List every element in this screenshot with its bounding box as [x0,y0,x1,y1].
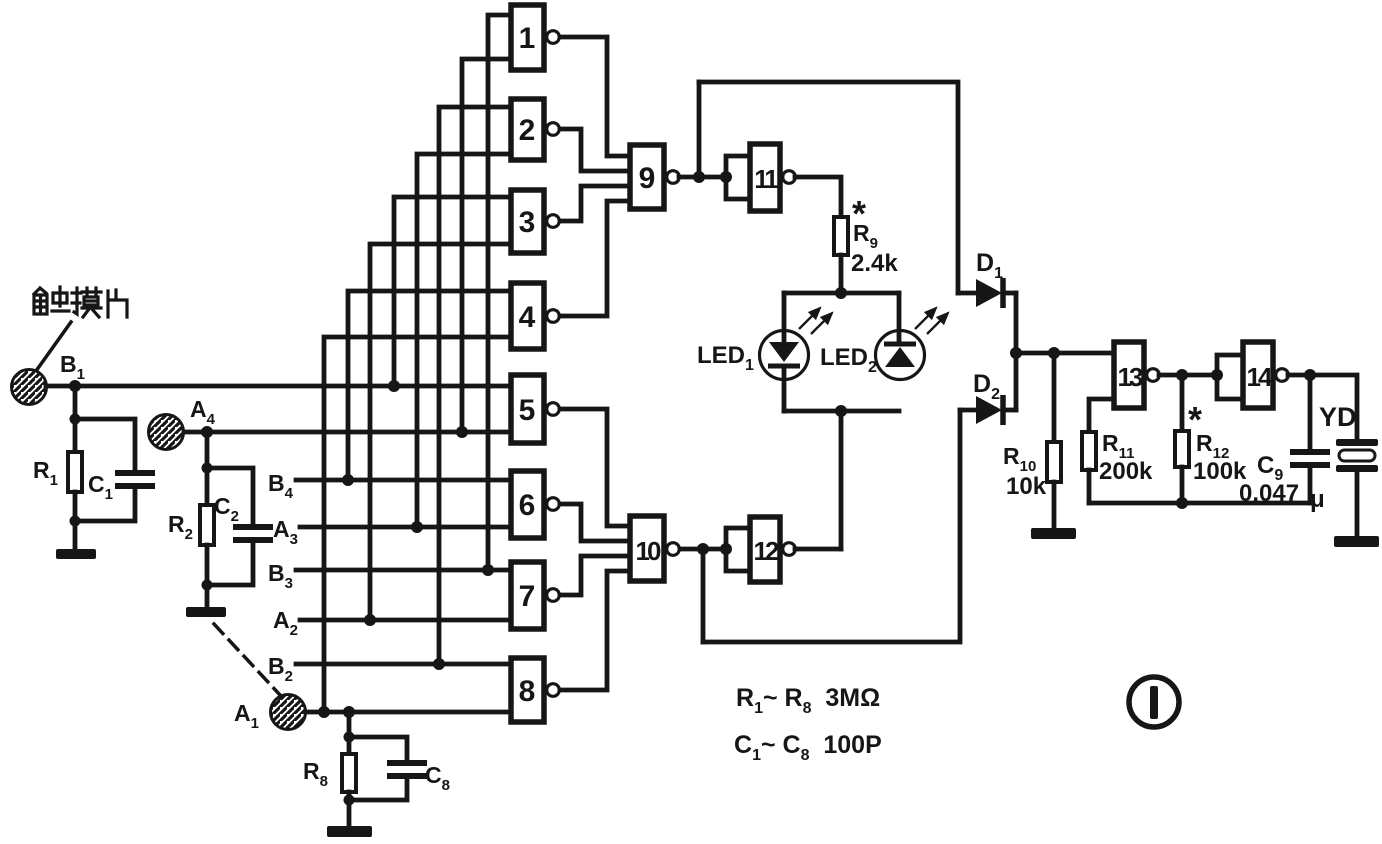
wire gate2 output to gate9 input2 [560,129,630,171]
gate U11 box [750,144,780,211]
label R12 [1196,430,1229,462]
svg-text:R1~ R8 3MΩ: R1~ R8 3MΩ [736,684,880,717]
wire D1/D2 join vertical [1014,293,1019,410]
label B3 [268,560,293,592]
wire YD bottom [1355,472,1360,536]
svg-text:C8: C8 [425,762,450,794]
capacitor C2 [207,468,273,585]
ground under R8 [327,826,372,837]
gate U1 box [511,5,544,70]
wire up from node to top rail [697,82,702,177]
svg-text:B1: B1 [60,351,85,383]
svg-text:200k: 200k [1099,458,1153,485]
resistor R10 [1047,442,1061,482]
svg-text:YD: YD [1319,402,1357,432]
junction A3 rail to gate2 column [411,521,423,533]
svg-text:12: 12 [754,536,779,566]
label A4 [190,396,216,428]
wire column gate1 input b to A4 [462,59,511,432]
svg-text:C1: C1 [88,471,113,503]
wire R9 to LED bridge [839,255,844,293]
resistor R8 [342,754,356,792]
label R2 [168,511,193,543]
junction at gate9 output [693,171,705,183]
label C9 [1257,452,1283,484]
wire LED1 branch bottom [782,368,787,411]
label YD [1319,402,1357,432]
resistor R11 [1082,432,1096,470]
svg-text:A1: A1 [234,700,259,732]
label 2.4k [851,250,898,277]
LED2 emission arrows [915,308,948,334]
wire gate14 input bracket [1217,355,1243,399]
svg-text:10k: 10k [1006,473,1047,500]
svg-text:μ: μ [1310,486,1325,513]
junction R12 bottom rail [1176,497,1188,509]
svg-text:4: 4 [519,301,536,334]
wire gate4 output to gate9 input4 [560,201,630,316]
wire gate5 output to gate10 input1 [560,409,630,526]
junction R2/C2 top [202,463,213,474]
label R8 [303,758,328,790]
label A2 [273,607,298,639]
gate U13 output bubble [1147,369,1160,382]
label 100k [1193,458,1247,485]
gate U12 box [750,517,780,582]
junction R10 tap [1048,347,1060,359]
wire gate12 input bracket [726,528,750,571]
junction at gate14 input [1211,369,1223,381]
junction R8/C8 bottom [344,795,355,806]
svg-text:6: 6 [519,489,536,522]
wire gate13 output to gate14 [1159,373,1217,378]
junction at gate11 input [720,171,732,183]
gate U14 output bubble [1276,369,1289,382]
gate U3 box [511,190,544,253]
label * for R9 [852,193,866,234]
svg-text:3: 3 [519,206,536,239]
gate U6 output bubble [547,498,560,511]
ground under YD [1334,536,1379,547]
gate U3 output bubble [547,215,560,228]
wire R12 bottom [1180,467,1185,503]
label C2 [214,493,239,525]
junction A1 rail to R8 [343,706,355,718]
wire gate14 output to YD [1288,375,1357,439]
svg-text:R2: R2 [168,511,193,543]
label C1 [88,471,113,503]
wire net B2 rail [296,662,511,667]
wire column gate2 input a to B2 [439,107,511,664]
label R10 [1003,443,1036,475]
wire gate3 output to gate9 input3 [560,186,630,221]
svg-text:A4: A4 [190,396,216,428]
junction at gate12 input [720,543,732,555]
junction A1 rail to gate4 column [318,706,330,718]
wire gate12 output to LED bottom [795,547,841,552]
svg-text:14: 14 [1247,362,1273,392]
gate U8 output bubble [547,684,560,697]
wire oscillator bottom rail [1089,501,1310,506]
label A3 [273,516,298,548]
gate U14 box [1243,342,1273,408]
junction on A4 rail to gate1 column [456,426,468,438]
svg-text:R8: R8 [303,758,328,790]
svg-text:R10: R10 [1003,443,1036,475]
wire A4 down to R2 [205,432,210,505]
gate U7 output bubble [547,589,560,602]
label touch pad 触摸片 [34,287,127,317]
svg-text:1: 1 [519,22,536,55]
label LED2 [820,344,877,376]
capacitor C8 [349,737,427,800]
wire column gate1 input a to B3 [488,15,511,570]
svg-text:LED1: LED1 [697,342,754,374]
resistor R9 [834,217,848,255]
svg-text:R1: R1 [33,457,58,489]
gate U11 output bubble [783,171,796,184]
node A4 junction [201,426,213,438]
wire column gate4 input a to B4 [348,291,511,480]
svg-text:B2: B2 [268,653,293,685]
gate U4 box [511,283,544,349]
gate U8 box [511,658,544,722]
wire gate7 output to gate10 input3 [560,556,630,595]
wire LED bridge bottom rail [784,409,899,414]
junction on B1 rail to gate3 column [388,380,400,392]
wire top rail to D1 [699,82,958,293]
label R11 [1102,430,1134,462]
wire A1 down to R8 [347,712,352,754]
wire LED1 branch top [782,293,787,342]
label B4 [268,470,294,502]
svg-text:11: 11 [754,164,778,194]
label B2 [268,653,293,685]
wire gate6 output to gate10 input2 [560,504,630,541]
junction B3 rail to gate1 column [482,564,494,576]
label R1 [33,457,58,489]
wire net A1 horizontal rail [306,710,511,715]
touch pad A4 (hatched circle) [149,415,184,450]
wire net A4 horizontal rail [184,430,511,435]
label 10k [1006,473,1047,500]
LED LED2 [876,331,925,380]
wire R1 bottom [73,492,78,549]
label B1 [60,351,85,383]
resistor R12 [1175,431,1189,467]
wire column gate4 input b to A1 [324,337,511,712]
capacitor C1 [75,419,155,521]
svg-text:R9: R9 [853,220,878,252]
svg-text:2.4k: 2.4k [851,250,898,277]
svg-text:10: 10 [636,536,661,566]
svg-text:C2: C2 [214,493,239,525]
wire down to R10 [1052,353,1057,442]
gate U2 output bubble [547,123,560,136]
wire B1 down to R1 [73,386,78,452]
svg-text:B3: B3 [268,560,293,592]
gate U13 box [1114,342,1144,408]
wire column gate2 input b to A3 [417,154,511,527]
ground under R1 [56,549,96,559]
gate U5 output bubble [547,403,560,416]
ground under R10 [1031,528,1076,539]
note C1~C8 100P [734,731,882,764]
gate U1 output bubble [547,31,560,44]
wire R2 bottom [205,545,210,607]
svg-text:A3: A3 [273,516,298,548]
wire R8 bottom [347,792,352,826]
diode D1 [958,278,1016,308]
svg-text:B4: B4 [268,470,294,502]
LED LED1 [760,331,809,380]
label 0.047 u [1239,480,1325,513]
svg-text:5: 5 [519,394,536,427]
wire column gate3 input b to A2 [370,244,511,620]
gate U9 output bubble [667,171,680,184]
label * for R12 [1188,399,1202,440]
label C8 [425,762,450,794]
junction C9 tap [1304,369,1316,381]
wire LED bottom to gate12 output [839,411,844,549]
node B1 junction [69,380,81,392]
wire down to R12 [1180,375,1185,431]
svg-text:0.047: 0.047 [1239,480,1299,507]
dashed link ground to pad A1 [214,624,281,696]
wire LED2 branch top [897,293,902,344]
resistor R1 [68,452,82,492]
junction diode node [1010,347,1022,359]
gate U4 output bubble [547,310,560,323]
wire R10 bottom [1052,482,1057,528]
junction A2 rail to gate3 column [364,614,376,626]
junction at gate10 output [697,543,709,555]
diode D2 [960,395,1016,425]
wire column gate3 input a to B1 [394,197,511,386]
resistor R2 [200,505,214,545]
gate U6 box [511,471,544,538]
label 200k [1099,458,1153,485]
junction R1/C1 top [70,414,81,425]
LED1 emission arrows [799,308,832,334]
junction R1/C1 bottom [70,516,81,527]
wire gate11 input bracket [726,156,750,199]
wire gate8 output to gate10 input4 [560,571,630,690]
wire down from node to bottom rail [701,549,706,642]
gate U10 output bubble [667,543,680,556]
wire gate1 output to gate9 input1 [560,37,630,156]
wire node to gate13 [1016,351,1114,356]
gate U7 box [511,562,544,629]
junction R12 tap [1176,369,1188,381]
junction R2/C2 bottom [202,580,213,591]
svg-text:13: 13 [1118,362,1143,392]
junction B4 rail to gate4 column [342,474,354,486]
wire gate9 output to node [679,175,726,180]
junction R8/C8 top [344,732,355,743]
figure number circle 1 [1129,677,1179,727]
gate U10 box [630,516,664,581]
label D2 [973,370,1000,403]
capacitor C9 [1290,375,1330,503]
wire bottom rail to D2 [703,410,960,642]
wire net A2 rail [300,618,511,623]
svg-text:C1~ C8 100P: C1~ C8 100P [734,731,882,764]
wire net B1 horizontal rail [46,384,511,389]
wire net A3 rail [300,525,511,530]
wire gate13 feedback stub to R11 [1089,399,1114,432]
label LED1 [697,342,754,374]
wire gate10 output to node [680,547,726,552]
junction LED bridge top [835,287,847,299]
ground under R2 [186,607,226,617]
wire LED bridge top rail [784,291,899,296]
svg-text:D1: D1 [976,249,1003,282]
label A1 [234,700,259,732]
svg-text:2: 2 [519,114,536,147]
svg-text:A2: A2 [273,607,298,639]
wire net B4 rail [296,478,511,483]
touch pad B1 (hatched circle) [12,370,47,405]
buzzer YD [1336,439,1378,472]
label R9 [853,220,878,252]
junction LED bridge bottom [835,405,847,417]
wire gate11 output to R9 [795,177,841,217]
wire net B3 rail [296,568,511,573]
svg-text:9: 9 [639,162,656,195]
label D1 [976,249,1003,282]
svg-text:7: 7 [519,580,536,613]
note R1~R8 3M ohm [736,684,880,717]
leader line to touch pad B1 [36,322,71,371]
gate U5 box [511,375,544,443]
wire R11 bottom [1087,470,1092,503]
touch pad A1 (hatched circle) [271,695,306,730]
gate U12 output bubble [783,543,796,556]
svg-text:LED2: LED2 [820,344,877,376]
svg-text:8: 8 [519,675,536,708]
gate U9 box [630,145,664,209]
junction B2 rail to gate2 column [433,658,445,670]
gate U2 box [511,99,544,160]
